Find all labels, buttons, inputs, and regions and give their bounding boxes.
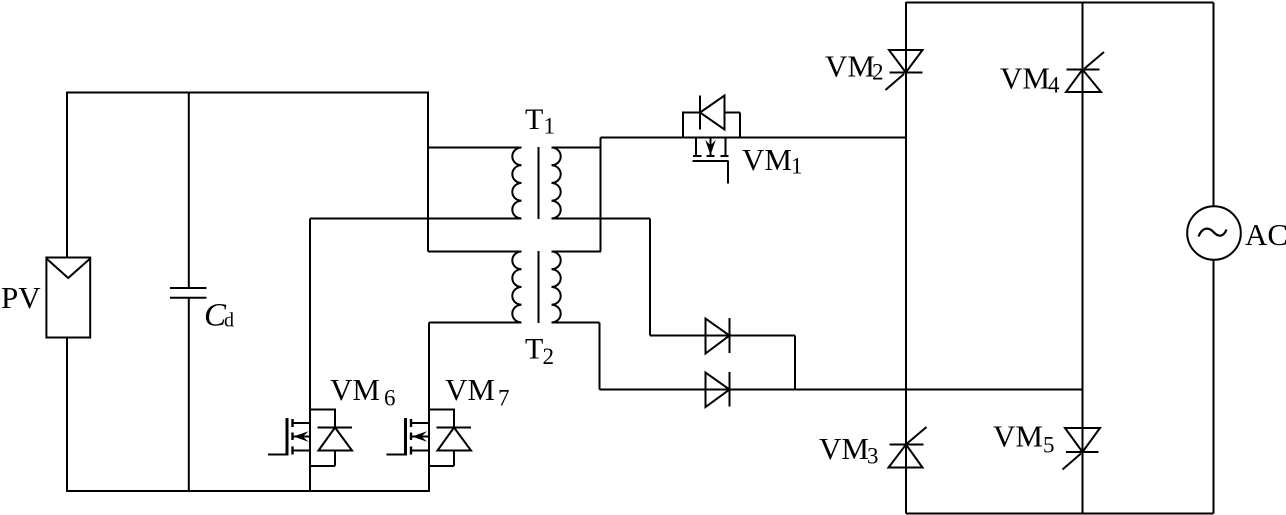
- label T2: [525, 333, 554, 370]
- svg-text:VM: VM: [993, 419, 1043, 454]
- label VM2: [825, 48, 884, 84]
- wire: Cd bottom lead: [188, 298, 190, 491]
- svg-text:6: 6: [384, 386, 396, 411]
- photovoltaic source PV: [46, 258, 90, 338]
- svg-text:2: 2: [543, 344, 555, 369]
- svg-text:VM: VM: [819, 431, 869, 466]
- wire: VM6 branch vertical: [309, 219, 311, 492]
- wire: T2 primary top lead: [428, 251, 522, 253]
- diode VD1: [706, 318, 730, 354]
- svg-text:VM: VM: [445, 372, 495, 407]
- MOSFET VM1: [693, 138, 729, 184]
- wire: top left rail: [66, 92, 429, 94]
- diode VD-VM6 antiparallel loop: [310, 410, 352, 467]
- wire: T2 lower branch vertical: [599, 323, 601, 390]
- label VM4: [1000, 61, 1060, 98]
- svg-text:T: T: [525, 333, 543, 366]
- wire: T2 secondary top lead: [552, 251, 602, 253]
- label VM5: [993, 419, 1055, 458]
- svg-text:4: 4: [1048, 73, 1060, 98]
- wire: T1 lower branch vertical: [649, 219, 651, 336]
- wire: T1 secondary bottom lead: [552, 218, 651, 220]
- svg-text:PV: PV: [1, 280, 41, 315]
- wire: AC rail bottom: [1213, 260, 1215, 514]
- diode VD2: [706, 372, 730, 407]
- wire: bottom left rail: [66, 490, 430, 492]
- wire: centre feed vertical: [427, 93, 429, 252]
- wire: bridge bottom rail: [906, 513, 1214, 515]
- wire: VM1 rail: [601, 137, 907, 139]
- wire: bridge top rail: [906, 2, 1214, 4]
- svg-text:7: 7: [498, 386, 510, 411]
- label Cd: [204, 298, 234, 334]
- label VM1: [742, 142, 803, 179]
- label VM7: [445, 372, 510, 411]
- wire: AC rail top: [1213, 3, 1215, 207]
- wire: bridge middle rail: [1082, 2, 1084, 514]
- thyristor VM2: [886, 50, 923, 90]
- svg-text:5: 5: [1043, 433, 1055, 458]
- diode VD-VM1 antiparallel loop: [683, 96, 740, 139]
- wire: VM7 branch vertical: [428, 323, 430, 492]
- wire: Cd top lead: [188, 93, 190, 289]
- wire: diode row 1: [650, 335, 795, 337]
- capacitor Cd: [170, 288, 207, 298]
- diode VD-VM7 antiparallel loop: [429, 410, 471, 467]
- wire: T2 secondary bottom lead: [552, 322, 600, 324]
- wire: T1 primary bottom lead: [310, 218, 522, 220]
- wire: PV top lead: [66, 93, 68, 258]
- wire: secondary common vertical: [600, 138, 602, 252]
- label VM3: [819, 431, 879, 469]
- label VM6: [330, 372, 396, 411]
- svg-text:AC: AC: [1245, 217, 1286, 252]
- label T1: [525, 103, 555, 139]
- MOSFET VM7: [387, 418, 430, 456]
- svg-text:VM: VM: [825, 48, 875, 83]
- thyristor VM5: [1063, 428, 1101, 470]
- svg-text:VM: VM: [330, 372, 380, 407]
- svg-text:2: 2: [872, 60, 884, 85]
- wire: T1 primary top lead: [428, 147, 522, 149]
- wire: T2 primary bottom lead: [429, 322, 522, 324]
- svg-text:d: d: [224, 310, 234, 332]
- svg-text:3: 3: [867, 444, 879, 469]
- svg-text:VM: VM: [742, 142, 792, 177]
- wire: row1 to row2 vertical: [794, 336, 796, 390]
- wire: PV bottom lead: [66, 338, 68, 493]
- thyristor VM4: [1066, 52, 1104, 92]
- MOSFET VM6: [268, 418, 310, 456]
- svg-text:VM: VM: [1000, 61, 1050, 96]
- svg-text:T: T: [525, 103, 543, 136]
- wire: diode row 2: [600, 389, 1084, 391]
- wire: bridge left rail: [905, 2, 907, 514]
- AC source: [1187, 206, 1241, 260]
- thyristor VM3: [889, 427, 927, 468]
- svg-text:1: 1: [544, 114, 556, 139]
- transformer T1: [512, 147, 560, 219]
- transformer T2: [512, 251, 560, 323]
- svg-text:1: 1: [791, 154, 803, 179]
- wire: T1 secondary top lead: [552, 147, 602, 149]
